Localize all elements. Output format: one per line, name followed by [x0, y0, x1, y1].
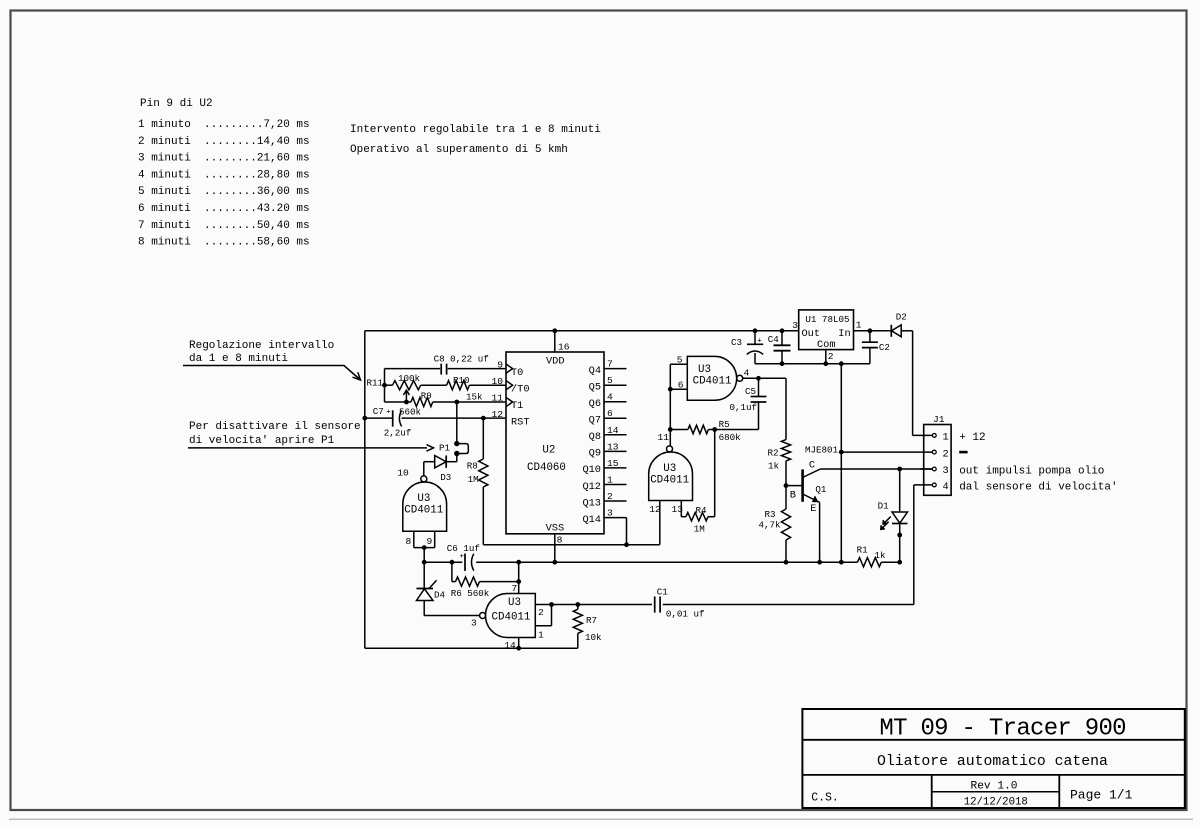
svg-text:MT 09 - Tracer 900: MT 09 - Tracer 900: [879, 716, 1125, 743]
svg-text:2: 2: [943, 448, 949, 460]
wire R8 bottom to pin12 of U3: [483, 544, 660, 546]
node rail D4 branch: [422, 560, 427, 565]
svg-text:D4: D4: [434, 589, 446, 600]
svg-text:U3: U3: [663, 463, 676, 475]
svg-text:RST: RST: [511, 416, 530, 428]
svg-text:Regolazione intervallo: Regolazione intervallo: [189, 340, 334, 352]
svg-text:4 minuti ........28,80 ms: 4 minuti ........28,80 ms: [138, 169, 310, 181]
wire Com rail: [755, 363, 870, 365]
svg-text:Per disattivare il sensore: Per disattivare il sensore: [189, 421, 361, 433]
svg-text:U3: U3: [417, 493, 430, 505]
wire VDD bottom rail: [365, 647, 578, 649]
svg-text:+: +: [386, 409, 391, 417]
wire gate A out to C1: [552, 604, 653, 606]
wire VSS rail: [424, 561, 462, 563]
svg-text:R11: R11: [367, 378, 384, 389]
led D1: [899, 469, 901, 512]
svg-text:11: 11: [658, 432, 670, 443]
node rail Q1 emitter: [817, 560, 822, 565]
svg-text:Q4: Q4: [589, 365, 601, 377]
svg-text:1 minuto .........7,20 ms: 1 minuto .........7,20 ms: [138, 119, 310, 131]
U1 pin 1 wire: [854, 330, 892, 332]
svg-text:CD4060: CD4060: [527, 462, 566, 474]
svg-text:U2: U2: [542, 445, 555, 457]
capacitor C7 2,2uf: [392, 410, 394, 426]
node T1/P1 branch: [454, 400, 459, 405]
svg-text:2: 2: [538, 607, 544, 618]
node Q1 base: [784, 483, 789, 488]
svg-text:3: 3: [607, 508, 613, 519]
wire J1 pin4 stub: [914, 484, 933, 486]
pin 16 VDD stub: [554, 331, 556, 352]
J1 pin 3 circle: [932, 467, 936, 471]
svg-text:Q1: Q1: [815, 484, 827, 495]
gate C pin 12 stub: [659, 501, 661, 545]
wire J1 pin3 stub: [920, 468, 932, 470]
resistor R6 560k: [451, 562, 453, 581]
svg-text:R1: R1: [857, 545, 869, 556]
svg-text:14: 14: [607, 425, 619, 436]
svg-text:Q7: Q7: [589, 415, 601, 427]
nand U3 CD4011 gate D: [687, 356, 736, 400]
node rail R6 branch: [450, 560, 455, 565]
svg-text:13: 13: [672, 504, 684, 515]
node C5 branch: [756, 376, 761, 381]
wire J1 pin2 to com bus: [841, 451, 932, 453]
node R5/R4/C5: [712, 427, 717, 432]
svg-text:CD4011: CD4011: [404, 505, 443, 517]
node com bus top: [839, 361, 844, 366]
svg-text:5: 5: [607, 375, 613, 386]
transistor Q1 MJE801: [786, 485, 803, 487]
svg-text:560k: 560k: [399, 407, 422, 418]
node RST to R8: [481, 416, 486, 421]
svg-text:R9: R9: [421, 390, 432, 401]
nand U3 CD4011 gate C output up: [667, 446, 673, 452]
svg-text:8: 8: [406, 536, 412, 547]
svg-text:dal sensore di velocita': dal sensore di velocita': [959, 482, 1117, 494]
capacitor C8 0,22uf: [440, 364, 442, 375]
capacitor C4: [781, 331, 783, 346]
svg-text:R6: R6: [451, 588, 462, 599]
gate D pin 5: [670, 363, 687, 365]
node rail R3 bottom: [784, 560, 789, 565]
diode D2: [892, 325, 902, 337]
node gate B inputs join: [422, 545, 427, 550]
svg-text:D1: D1: [878, 500, 890, 511]
wire com bus vertical: [840, 364, 842, 563]
svg-text:U3: U3: [508, 597, 521, 609]
svg-text:C2: C2: [879, 342, 890, 353]
svg-text:2: 2: [607, 491, 613, 502]
wire VDD top rail: [365, 330, 799, 332]
svg-text:P1: P1: [439, 443, 451, 454]
wire RST line: [365, 417, 393, 419]
node pin2 com bus: [839, 450, 844, 455]
node R7 top: [575, 602, 580, 607]
U2 pin 3 Q14 stub: [604, 517, 627, 519]
svg-text:C1: C1: [657, 586, 669, 597]
svg-text:15k: 15k: [466, 392, 483, 403]
svg-text:Q6: Q6: [589, 398, 601, 410]
U2 clock triangle pin 9: [506, 364, 513, 373]
svg-text:VSS: VSS: [546, 523, 565, 535]
svg-text:Q14: Q14: [582, 514, 601, 526]
svg-text:Q13: Q13: [582, 497, 601, 509]
svg-text:Q12: Q12: [582, 481, 601, 493]
resistor R2 1k: [781, 440, 790, 461]
svg-text:12: 12: [649, 504, 661, 515]
svg-text:3: 3: [471, 618, 477, 629]
node C7 to VDD edge: [362, 416, 367, 421]
svg-text:Q9: Q9: [589, 448, 601, 460]
svg-text:C3: C3: [731, 337, 742, 348]
svg-text:7 minuti ........50,40 ms: 7 minuti ........50,40 ms: [138, 220, 310, 232]
svg-text:3 minuti ........21,60 ms: 3 minuti ........21,60 ms: [138, 153, 310, 165]
svg-text:R4: R4: [696, 505, 708, 516]
svg-text:C5: C5: [745, 386, 756, 397]
svg-text:100k: 100k: [398, 373, 421, 384]
svg-text:out impulsi pompa olio: out impulsi pompa olio: [959, 466, 1104, 478]
svg-text:1: 1: [607, 475, 613, 486]
svg-text:4: 4: [943, 481, 949, 493]
svg-text:Oliatore automatico catena: Oliatore automatico catena: [877, 754, 1108, 770]
svg-text:CD4011: CD4011: [693, 375, 732, 387]
wire VDD left edge: [364, 331, 366, 648]
resistor R3 4,7k: [781, 509, 790, 540]
svg-text:C4: C4: [768, 334, 780, 345]
regulator U1 78L05 body: [799, 310, 854, 350]
U2 pin 5 Q5 stub: [604, 384, 627, 386]
U2 clock triangle pin 11: [506, 397, 513, 406]
svg-text:Com: Com: [817, 339, 836, 351]
svg-text:7: 7: [607, 359, 613, 370]
U3 gate B pins 8 9: [413, 531, 415, 547]
svg-text:R10: R10: [453, 375, 470, 386]
svg-text:1M: 1M: [694, 524, 705, 535]
U2 pin 2 Q13 stub: [604, 500, 627, 502]
wire D3 to U3 gate output 10: [423, 462, 425, 476]
svg-text:U1 78L05: U1 78L05: [805, 314, 849, 325]
node R11 left: [382, 383, 387, 388]
svg-text:Rev 1.0: Rev 1.0: [971, 780, 1018, 792]
svg-text:10: 10: [397, 467, 409, 478]
U2 pin 6 Q7 stub: [604, 417, 627, 419]
svg-text:3: 3: [792, 320, 798, 331]
svg-text:CD4011: CD4011: [492, 612, 531, 624]
capacitor C1 0,01uf: [654, 597, 656, 613]
wire pin9 T0 line: [448, 368, 506, 370]
node R11 wiper on T1 line: [404, 400, 409, 405]
svg-text:Page 1/1: Page 1/1: [1070, 787, 1133, 802]
gate C pin 13 stub: [680, 501, 682, 517]
J1 pin 4 circle: [932, 483, 936, 487]
svg-text:1: 1: [943, 432, 949, 444]
svg-text:5 minuti ........36,00 ms: 5 minuti ........36,00 ms: [138, 186, 310, 198]
svg-text:3: 3: [943, 465, 949, 477]
svg-text:MJE801: MJE801: [805, 444, 839, 455]
resistor R5 680k: [670, 429, 688, 431]
ic U2 CD4060 body: [506, 352, 604, 534]
page bottom shadow line: [9, 818, 1193, 820]
resistor R10 15k: [447, 381, 470, 390]
svg-text:D2: D2: [896, 311, 907, 322]
wire D2 to J1 pin1: [912, 331, 914, 436]
led D1 arrows: [883, 517, 890, 524]
J1 pin 2 circle: [932, 450, 936, 454]
connector J1 body: [924, 425, 951, 496]
svg-text:+: +: [460, 553, 465, 561]
svg-text:+ 12: + 12: [959, 432, 985, 444]
resistor R9 560k: [411, 397, 433, 406]
svg-text:R2: R2: [768, 447, 779, 458]
svg-text:da 1 e 8 minuti: da 1 e 8 minuti: [189, 353, 288, 365]
svg-text:Q10: Q10: [582, 464, 601, 476]
svg-text:1: 1: [856, 319, 862, 330]
svg-text:+: +: [757, 337, 762, 345]
svg-text:5: 5: [677, 355, 683, 366]
capacitor C2: [869, 331, 871, 342]
gate A pin 14 stub: [518, 638, 520, 649]
wire gate D inputs bus: [669, 364, 671, 446]
node rail pin7 branch: [516, 560, 521, 565]
capacitor C3 polarized: [754, 331, 756, 345]
potentiometer R11 100k: [393, 381, 421, 390]
svg-text:R8: R8: [467, 461, 478, 472]
svg-text:di velocita' aprire P1: di velocita' aprire P1: [189, 435, 335, 447]
svg-text:15: 15: [607, 458, 619, 469]
svg-text:2,2uf: 2,2uf: [384, 428, 412, 439]
svg-text:16: 16: [558, 342, 570, 353]
svg-text:C7: C7: [373, 406, 384, 417]
node D1 cathode to R1: [897, 560, 902, 565]
svg-text:Q5: Q5: [589, 382, 601, 394]
nand U3 CD4011 gate B output up: [421, 476, 427, 482]
node pin2 out: [549, 602, 554, 607]
diode D4: [423, 562, 425, 588]
gate A pin 3 output wire: [424, 615, 480, 617]
svg-text:7: 7: [512, 583, 518, 594]
diode D3: [456, 454, 458, 462]
gate D output pin 4 wire: [743, 377, 786, 379]
svg-text:6 minuti ........43.20 ms: 6 minuti ........43.20 ms: [138, 203, 310, 215]
svg-text:1: 1: [538, 629, 544, 640]
svg-text:1k: 1k: [768, 460, 780, 471]
resistor R1 1k: [858, 558, 882, 567]
U1 pin 3 wire: [782, 330, 799, 332]
U2 pin 13 Q9 stub: [604, 450, 627, 452]
jumper P1: [454, 441, 459, 446]
svg-text:C6 1uf: C6 1uf: [447, 543, 480, 554]
svg-text:8 minuti ........58,60 ms: 8 minuti ........58,60 ms: [138, 237, 310, 249]
capacitor C6 1uf polarized: [464, 554, 466, 571]
gate A pin 7 stub: [518, 562, 520, 593]
wire collector to J1 pin3: [820, 468, 932, 470]
svg-text:Operativo al superamento di 5: Operativo al superamento di 5 kmh: [350, 144, 568, 156]
node collector D1 branch: [897, 467, 902, 472]
svg-text:VDD: VDD: [546, 356, 565, 368]
wire C1 to J1 pin4: [663, 604, 914, 606]
svg-text:C8 0,22 uf: C8 0,22 uf: [434, 354, 489, 365]
node VDD at U2 pin16: [552, 328, 557, 333]
wire Q14 down link: [626, 518, 628, 545]
label minus: [959, 451, 967, 454]
svg-text:10k: 10k: [585, 632, 602, 643]
svg-text:2 minuti ........14,40 ms: 2 minuti ........14,40 ms: [138, 136, 310, 148]
svg-text:In: In: [838, 328, 850, 340]
capacitor C5 0,1uf: [758, 378, 760, 396]
wire pin4 net down to R2: [785, 378, 787, 439]
U2 clock triangle pin 10: [506, 381, 513, 390]
svg-text:4: 4: [607, 392, 613, 403]
gate D pin 6: [670, 388, 687, 390]
svg-text:6: 6: [607, 408, 613, 419]
title block frame: [802, 709, 1184, 808]
leader arrow to P1: [188, 447, 427, 449]
svg-text:14: 14: [504, 640, 516, 651]
svg-text:U3: U3: [698, 364, 711, 376]
svg-text:C: C: [809, 460, 815, 472]
svg-text:4: 4: [744, 367, 750, 378]
svg-text:0,1uf: 0,1uf: [730, 402, 758, 413]
svg-text:560k: 560k: [467, 588, 490, 599]
J1 pin 1 circle: [932, 434, 936, 438]
svg-text:B: B: [790, 489, 796, 501]
svg-text:Intervento regolabile tra 1 e: Intervento regolabile tra 1 e 8 minuti: [350, 124, 601, 136]
svg-text:9: 9: [427, 536, 433, 547]
svg-text:0,01 uf: 0,01 uf: [666, 608, 705, 619]
R11 wiper arrow: [405, 390, 407, 402]
wire T1 to P1: [456, 402, 458, 444]
U1 pin 2 stub: [825, 350, 827, 364]
node R6 right / pin7: [516, 579, 521, 584]
svg-text:12/12/2018: 12/12/2018: [964, 797, 1028, 809]
svg-text:6: 6: [678, 380, 684, 391]
svg-text:Pin 9 di U2: Pin 9 di U2: [140, 98, 213, 110]
wire left RC bus: [384, 369, 386, 402]
svg-text:1k: 1k: [875, 550, 887, 561]
pin 8 VSS stub: [554, 534, 556, 562]
svg-text:2: 2: [828, 351, 834, 362]
node inputs to R5: [668, 427, 673, 432]
node rail com bus: [839, 560, 844, 565]
U2 pin 15 Q10 stub: [604, 467, 627, 469]
svg-text:4,7k: 4,7k: [759, 520, 782, 531]
gate A pins 2 and 1 tie: [535, 604, 551, 606]
svg-text:8: 8: [557, 535, 563, 546]
resistor R4 1M: [681, 516, 686, 518]
resistor R8 1M: [482, 418, 484, 459]
svg-text:Q8: Q8: [589, 431, 601, 443]
nand U3 CD4011 gate A output left: [480, 613, 486, 619]
svg-text:J1: J1: [933, 414, 945, 425]
svg-text:R5: R5: [719, 419, 730, 430]
svg-text:13: 13: [607, 441, 619, 452]
node rail U2 pin8: [552, 560, 557, 565]
svg-text:E: E: [810, 503, 816, 515]
svg-text:C.S.: C.S.: [811, 792, 839, 805]
svg-text:R7: R7: [586, 615, 597, 626]
resistor R7 10k: [577, 605, 579, 610]
node Q14 junction: [624, 542, 629, 547]
svg-text:D3: D3: [440, 472, 451, 483]
svg-text:1M: 1M: [468, 474, 479, 485]
svg-text:CD4011: CD4011: [650, 474, 689, 486]
U2 pin 1 Q12 stub: [604, 484, 627, 486]
U2 pin 14 Q8 stub: [604, 434, 627, 436]
U2 pin 4 Q6 stub: [604, 401, 627, 403]
svg-text:680k: 680k: [719, 432, 742, 443]
leader arrow to R11: [183, 366, 361, 381]
U2 pin 7 Q4 stub: [604, 368, 627, 370]
